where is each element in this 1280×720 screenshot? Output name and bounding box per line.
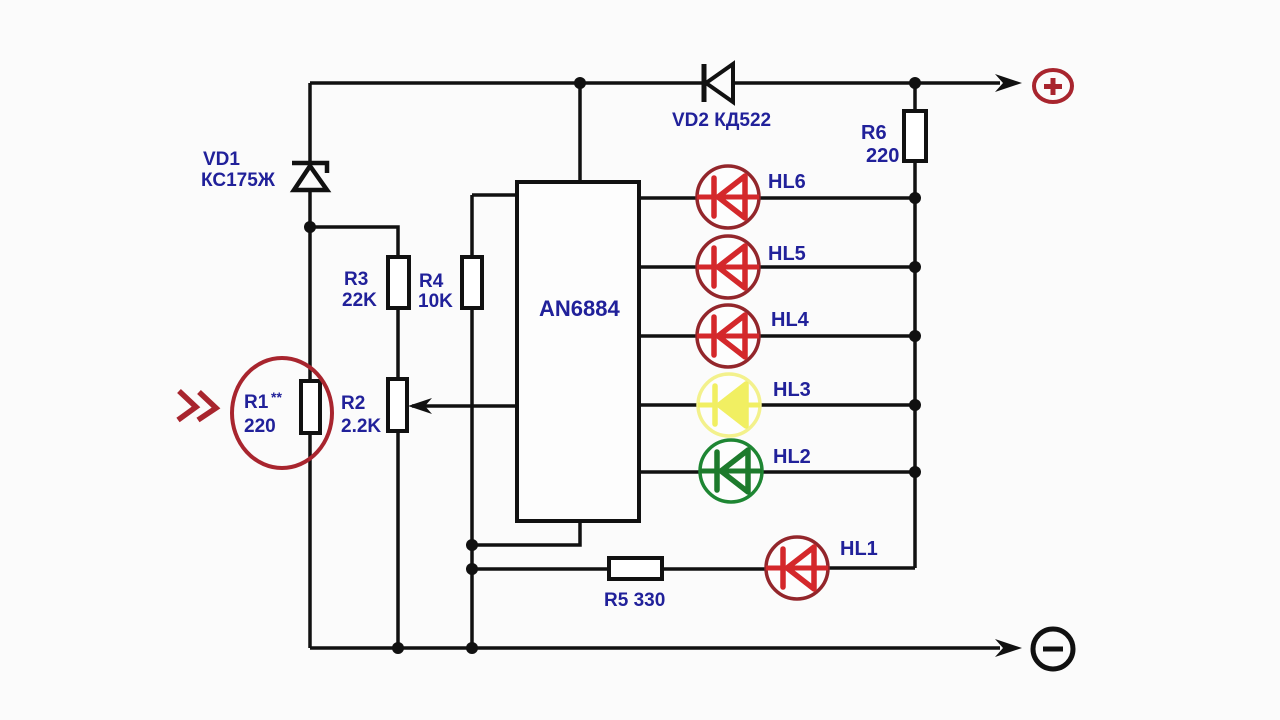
svg-text:HL2: HL2 — [773, 446, 811, 468]
svg-text:HL3: HL3 — [773, 379, 811, 401]
svg-text:R3: R3 — [344, 269, 368, 290]
svg-text:10K: 10K — [418, 291, 453, 312]
svg-text:HL6: HL6 — [768, 171, 806, 193]
svg-text:VD1: VD1 — [203, 149, 240, 170]
svg-text:HL4: HL4 — [771, 309, 810, 331]
svg-text:220: 220 — [866, 145, 899, 167]
svg-text:R6: R6 — [861, 122, 887, 144]
svg-text:R1: R1 — [244, 392, 269, 413]
svg-text:220: 220 — [244, 416, 276, 437]
svg-text:HL1: HL1 — [840, 538, 878, 560]
svg-text:R2: R2 — [341, 393, 365, 414]
svg-text:2.2K: 2.2K — [341, 416, 381, 437]
svg-text:R5 330: R5 330 — [604, 590, 665, 611]
svg-text:22K: 22K — [342, 290, 377, 311]
svg-text:HL5: HL5 — [768, 243, 806, 265]
svg-text:КС175Ж: КС175Ж — [201, 170, 276, 191]
svg-text:R4: R4 — [419, 271, 444, 292]
svg-text:AN6884: AN6884 — [539, 296, 620, 321]
svg-text:VD2 КД522: VD2 КД522 — [672, 110, 771, 131]
svg-text:**: ** — [271, 389, 282, 405]
